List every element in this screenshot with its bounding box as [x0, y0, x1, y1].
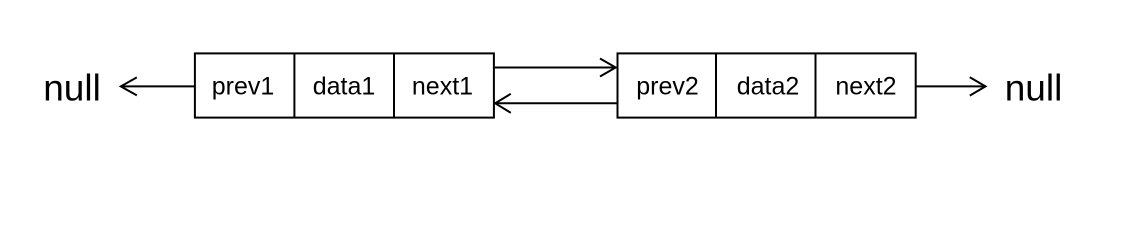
- svg-text:prev1: prev1: [212, 73, 275, 101]
- wire prev2 to next1 (arrow left): [495, 94, 617, 113]
- node N1 cell divider 2: [393, 53, 395, 117]
- wire next1 to prev2 (arrow right): [495, 59, 616, 77]
- svg-text:data2: data2: [737, 73, 800, 101]
- svg-text:null: null: [43, 67, 101, 108]
- wire next2 to null (arrow right): [916, 77, 986, 95]
- node N2 cell divider 1: [715, 53, 717, 117]
- svg-text:data1: data1: [313, 73, 376, 101]
- svg-text:next2: next2: [835, 73, 896, 101]
- svg-text:prev2: prev2: [636, 73, 699, 101]
- node N1 box: [195, 53, 494, 117]
- node N2 cell divider 2: [815, 53, 817, 117]
- wire prev1 to null (arrow left): [121, 77, 195, 95]
- svg-text:next1: next1: [412, 73, 473, 101]
- node N2 box: [618, 53, 916, 117]
- node N1 cell divider 1: [293, 53, 295, 117]
- svg-text:null: null: [1005, 67, 1063, 108]
